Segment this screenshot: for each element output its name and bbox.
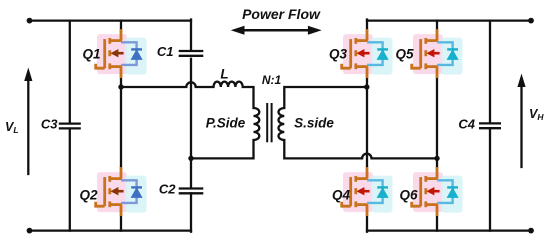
- transistor Q6: [412, 167, 463, 216]
- node A (Q1/Q2 midpoint): [118, 84, 123, 89]
- wire Q5 source to node D leg: [436, 77, 438, 168]
- svg-text:Q4: Q4: [332, 188, 351, 203]
- wire node-B to C2: [190, 158, 192, 188]
- wire C1-to-node-B: [190, 59, 192, 159]
- VL voltage arrow: [24, 68, 32, 175]
- wire hop over Q3Q4 leg: [362, 154, 371, 159]
- node C (S.side top on Q3/Q4 leg): [364, 84, 369, 89]
- svg-text:Q2: Q2: [79, 188, 98, 203]
- wire primary bottom corner: [191, 140, 254, 158]
- inductor L: [214, 82, 243, 87]
- wire Q3 drain from rail corner: [366, 20, 368, 31]
- capacitor C3: [59, 124, 81, 129]
- transformer secondary winding: [278, 108, 284, 140]
- svg-text:Q6: Q6: [399, 188, 418, 203]
- wire node A to hop: [121, 86, 186, 88]
- svg-text:C3: C3: [41, 117, 58, 132]
- wire bottom rail right: [367, 229, 531, 231]
- wire bottom rail left: [30, 229, 192, 231]
- svg-text:N:1: N:1: [262, 73, 282, 87]
- wire C4 branch lower: [489, 128, 491, 230]
- wire C4 branch upper: [489, 21, 491, 124]
- wire C2 bottom to rail corner: [190, 193, 192, 231]
- node D (S.side bottom on Q5/Q6 leg): [434, 156, 439, 161]
- wire secondary top to node C: [284, 87, 367, 108]
- wire C3 branch upper: [69, 21, 71, 124]
- transistor Q2: [96, 167, 147, 216]
- transistor Q4: [342, 167, 393, 216]
- wire top rail right: [367, 19, 531, 21]
- svg-text:Power Flow: Power Flow: [242, 6, 321, 22]
- wire Q2 drain from node A: [120, 87, 122, 168]
- wire secondary bottom to hop: [284, 140, 362, 158]
- wire Q1 drain from top rail: [120, 21, 122, 31]
- wire Q2 source to bottom rail: [120, 216, 122, 231]
- svg-text:Q1: Q1: [82, 47, 100, 62]
- node B (C1/C2 midpoint): [188, 156, 193, 161]
- transformer core: [266, 104, 268, 141]
- wire top rail left: [30, 19, 192, 21]
- node V_H+ terminal dot: [528, 18, 534, 24]
- wire inductor to primary top corner: [243, 87, 254, 108]
- svg-text:P.Side: P.Side: [206, 116, 246, 131]
- capacitor C4: [479, 123, 501, 128]
- wire C3 branch lower: [69, 129, 71, 231]
- svg-text:C1: C1: [157, 44, 174, 59]
- wire Q5 drain from top rail: [436, 21, 438, 31]
- transistor Q1: [96, 29, 147, 78]
- wire Q4 source to bottom rail: [366, 216, 368, 232]
- wire C1 top from rail corner: [190, 20, 192, 51]
- transistor Q3: [342, 29, 393, 78]
- wire hop to node D: [372, 157, 438, 159]
- transformer primary winding: [254, 108, 260, 140]
- svg-text:L: L: [220, 67, 228, 82]
- node V_L- terminal dot: [27, 228, 33, 234]
- svg-text:C4: C4: [458, 117, 475, 132]
- capacitor C2: [179, 189, 204, 194]
- capacitor C1: [179, 51, 204, 56]
- wire hop over C1C2 column: [186, 82, 195, 87]
- node V_L+ terminal dot: [27, 18, 33, 24]
- transistor Q5: [412, 29, 463, 78]
- VH voltage arrow: [517, 74, 525, 168]
- wire Q6 source to bottom rail: [436, 216, 438, 231]
- node V_H- terminal dot: [528, 228, 534, 234]
- wire Q1 source to node A: [120, 77, 122, 87]
- svg-text:Q3: Q3: [329, 47, 348, 62]
- power flow double arrow: [231, 26, 322, 35]
- wire hop to inductor: [196, 86, 214, 88]
- svg-text:C2: C2: [159, 182, 176, 197]
- wire Q3 source to Q4 drain leg: [366, 77, 368, 168]
- svg-text:Q5: Q5: [395, 47, 414, 62]
- svg-text:S.side: S.side: [294, 116, 334, 131]
